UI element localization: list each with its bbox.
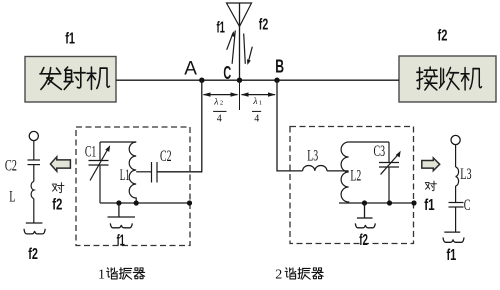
- ground (left outer): [24, 223, 45, 234]
- svg-text:f2: f2: [28, 246, 38, 263]
- junction dot ground tap 2: [362, 200, 367, 205]
- wire circle to C2 (left outer): [33, 141, 35, 160]
- capacitor C (right outer): [449, 203, 464, 208]
- svg-text:1: 1: [98, 268, 105, 283]
- dimension arrow C-B: [241, 92, 276, 96]
- wire from node A down to C2: [157, 80, 202, 172]
- resonator 2 dashed box: [290, 127, 414, 244]
- svg-text:4: 4: [254, 113, 259, 124]
- wire top rail resonator 1: [100, 141, 136, 143]
- svg-text:1: 1: [259, 100, 262, 107]
- svg-text:λ: λ: [252, 97, 257, 107]
- svg-text:f1: f1: [424, 197, 434, 214]
- ground resonator 2: [355, 203, 375, 228]
- ground (right outer): [443, 232, 464, 242]
- label 对 (left): [52, 183, 64, 193]
- svg-text:4: 4: [217, 113, 222, 124]
- wire C2 to L (left outer): [33, 165, 35, 182]
- svg-text:λ: λ: [213, 97, 218, 107]
- transmitter box: [25, 57, 116, 103]
- svg-text:B: B: [275, 57, 284, 77]
- svg-text:f2: f2: [259, 17, 268, 34]
- label 发射机: [40, 67, 109, 89]
- f1 incoming wave mark: [227, 30, 236, 63]
- inductor L1: [129, 142, 136, 203]
- svg-text:C: C: [464, 197, 471, 214]
- wire bottom rail resonator 1: [100, 202, 190, 204]
- capacitor C2 (inside box): [136, 162, 157, 183]
- terminal circle (left outer): [29, 131, 38, 140]
- terminal circle (right outer): [451, 135, 460, 144]
- f2 outgoing wave mark: [244, 34, 253, 65]
- label 2谐振器: [275, 268, 323, 283]
- wire bottom rail resonator 2: [339, 202, 414, 204]
- resonator 1 dashed box: [76, 127, 190, 246]
- svg-text:f1: f1: [65, 31, 75, 48]
- wire circle to L3 (right outer): [455, 145, 457, 167]
- svg-text:L2: L2: [350, 168, 361, 185]
- node A: [199, 78, 204, 83]
- capacitor C2 (left outer): [28, 160, 41, 165]
- main wire: [116, 79, 399, 81]
- wire C to ground (right outer): [455, 207, 457, 232]
- svg-text:f1: f1: [117, 233, 125, 250]
- junction dot C3 bottom: [387, 200, 392, 205]
- junction dot ground tap 1: [116, 200, 121, 205]
- svg-text:C3: C3: [374, 143, 386, 160]
- wire top rail resonator 2: [349, 141, 389, 143]
- junction dot L1 bottom: [134, 200, 139, 205]
- wire from node B down to L3: [277, 80, 303, 171]
- dimension tick at C: [239, 80, 241, 110]
- svg-text:L1: L1: [120, 167, 130, 184]
- block arrow right (toward f1): [422, 158, 440, 171]
- inductor L2: [341, 142, 348, 203]
- wire L3 to C (right outer): [455, 186, 457, 203]
- svg-text:L: L: [9, 189, 15, 206]
- dimension arrow A-C: [203, 92, 239, 96]
- label 1谐振器: [98, 268, 145, 283]
- antenna feed wire: [239, 3, 241, 80]
- wire L to ground (left outer): [33, 199, 35, 223]
- svg-text:f2: f2: [438, 28, 448, 45]
- inductor L3 (right outer): [456, 167, 459, 186]
- label fraction λ2/4: [213, 97, 226, 124]
- junction dot rail end 2: [411, 200, 416, 205]
- ground resonator 1: [108, 203, 136, 228]
- svg-text:C2: C2: [160, 148, 172, 165]
- svg-text:2: 2: [275, 268, 282, 283]
- node C: [237, 78, 242, 83]
- svg-text:C1: C1: [85, 143, 96, 160]
- block arrow left (toward f2): [50, 157, 70, 172]
- antenna triangle: [227, 3, 252, 27]
- svg-text:C: C: [223, 63, 231, 83]
- svg-text:f2: f2: [52, 197, 62, 214]
- receiver box: [399, 56, 496, 102]
- svg-text:f2: f2: [359, 232, 368, 249]
- wire L3 to L2: [327, 170, 349, 172]
- svg-text:2: 2: [220, 100, 223, 107]
- label 对 (right): [425, 181, 436, 191]
- capacitor C3 (variable): [379, 142, 401, 203]
- svg-text:f1: f1: [447, 247, 457, 264]
- inductor L3 (horizontal): [303, 165, 327, 170]
- label fraction λ1/4: [252, 97, 262, 124]
- label 接收机: [417, 67, 482, 90]
- inductor L (left outer): [31, 181, 34, 198]
- svg-text:f1: f1: [217, 19, 225, 36]
- svg-text:C2: C2: [5, 158, 17, 175]
- junction dot rail end 1: [187, 200, 192, 205]
- svg-text:A: A: [184, 59, 197, 80]
- svg-text:L3: L3: [307, 147, 318, 164]
- capacitor C1 (variable): [89, 142, 111, 203]
- svg-text:L3: L3: [460, 166, 471, 183]
- node B: [274, 78, 279, 83]
